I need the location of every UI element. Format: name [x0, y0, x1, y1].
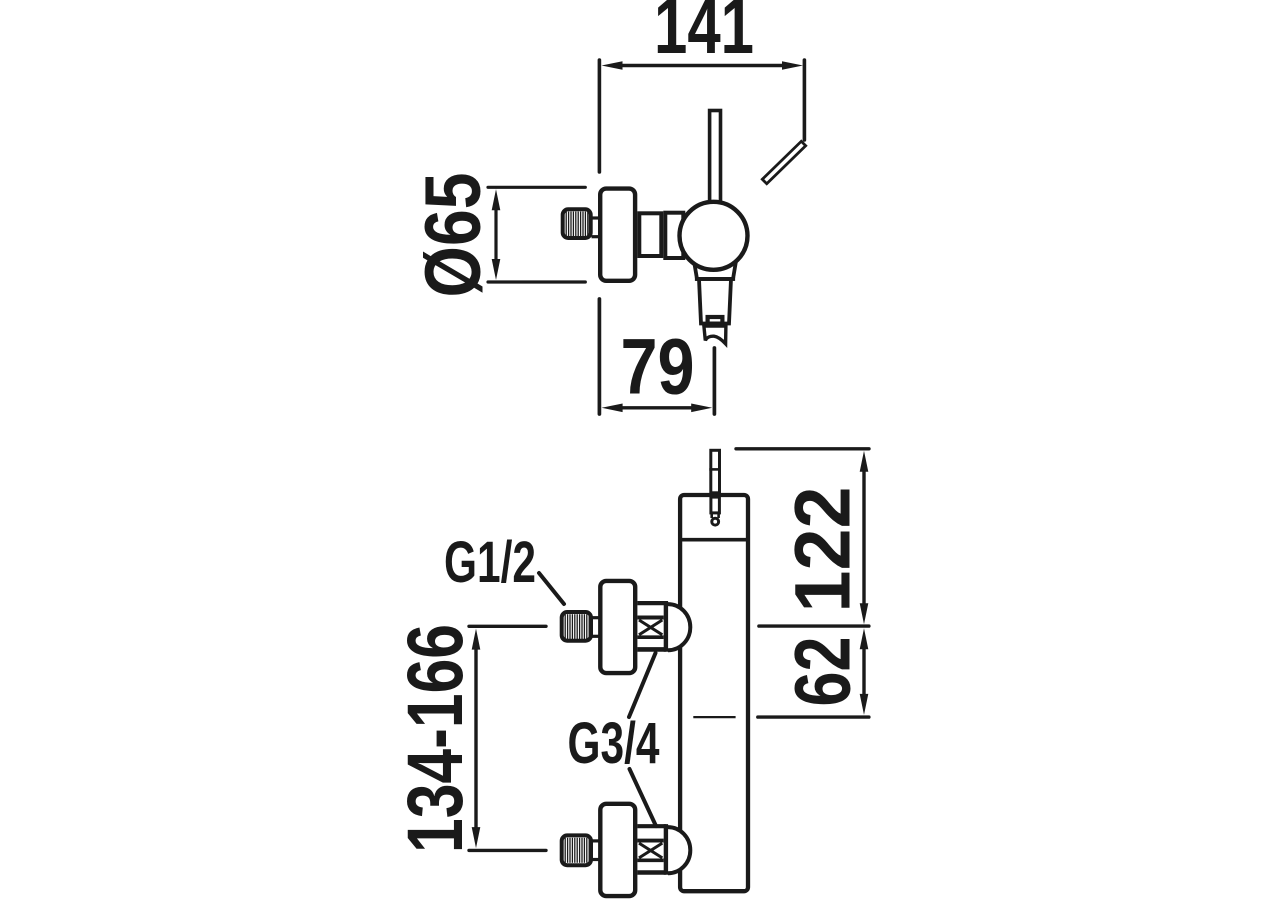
extension line right of 141 [803, 60, 807, 140]
arrowhead Ø65 down [492, 259, 501, 280]
leader line G1/2 [539, 573, 564, 604]
leader line G3/4 lower [630, 769, 657, 826]
arrowhead 79 left [602, 404, 623, 413]
front view: screw slot lower guides [710, 513, 713, 518]
side view: aerator window [708, 317, 723, 324]
side view: handle rod [710, 111, 721, 203]
dim text 62 (rotated) [778, 637, 867, 707]
arrowhead 122 down [860, 603, 869, 624]
front view: handle rod [711, 450, 720, 493]
front view: upper union top bar [637, 601, 666, 605]
dim text 141 [654, 0, 754, 70]
side view: collar bottom line [695, 277, 735, 281]
dimension line 79 [612, 406, 702, 409]
arrowhead 62 down [860, 694, 869, 715]
front view: lower union inner line 2 [637, 858, 663, 862]
dimension line 141 [612, 64, 792, 67]
side view: connector block [639, 213, 661, 256]
extension line left of 79 [598, 299, 602, 414]
front view: upper D-boss [668, 604, 690, 650]
front view: lower union bottom bar [637, 870, 666, 875]
side view: lever tip (diagonal) [762, 141, 805, 183]
svg-text:62: 62 [778, 637, 867, 707]
front view: lower nipple hatching [565, 838, 589, 863]
front view: lower flange [600, 804, 635, 896]
dimension line 62 [862, 640, 865, 703]
arrowhead 62 up [860, 628, 869, 649]
arrowhead 122 up [860, 451, 869, 472]
front view: lower D-boss [668, 827, 690, 873]
front view: lower nipple [562, 835, 591, 865]
extension line right of 79 [713, 348, 717, 414]
side view: neck between nipple and escutcheon [592, 216, 600, 219]
front view: lower union right bar [664, 824, 668, 875]
dim text 122 (rotated) [778, 487, 867, 613]
front view: cap divider line [678, 538, 750, 542]
front view: main body [680, 495, 748, 891]
front view: rod inner line [709, 468, 721, 471]
front view: upper flange [600, 581, 635, 673]
svg-text:Ø65: Ø65 [408, 173, 497, 298]
dim text Ø65 (rotated) [408, 173, 497, 298]
front view: lower union X cross [639, 843, 662, 858]
tick at rod top (122 upper) [736, 447, 869, 450]
front view: upper union inner line 1 [637, 616, 663, 620]
side view: wall escutcheon [600, 189, 635, 281]
svg-text:141: 141 [654, 0, 754, 70]
side view: outlet shroud [699, 279, 731, 324]
tick at outlet center (62 lower) [758, 715, 869, 718]
dimension line 134-166 [474, 645, 477, 832]
front view: lower union top bar [637, 824, 666, 828]
arrowhead 134-166 up [472, 629, 481, 650]
label G3/4 [568, 711, 660, 776]
side view: valve sphere [680, 202, 748, 270]
svg-text:134-166: 134-166 [390, 624, 479, 853]
tick at inlet center (122/62) [759, 624, 869, 627]
arrowhead 141 right [782, 61, 803, 70]
side view: threaded inlet nipple [563, 209, 591, 238]
front view: lower union inner line 1 [637, 839, 663, 843]
extension line left of 141 [598, 60, 602, 172]
side view: outlet fork (break symbol) [704, 326, 726, 344]
front view: upper union right bar [664, 601, 668, 652]
side view: nipple thread hatching [566, 212, 588, 237]
front view: upper union bottom bar [637, 647, 666, 652]
leader line G3/4 upper [629, 653, 656, 717]
side view: valve body block [665, 213, 683, 258]
dim text 79 [621, 322, 695, 411]
front view: screw circle [712, 518, 719, 525]
tick top of Ø65 [488, 186, 585, 189]
arrowhead Ø65 up [492, 189, 501, 210]
tick 134-166 lower [469, 849, 546, 852]
side view: outlet top collar [695, 264, 736, 279]
arrowhead 141 left [602, 61, 623, 70]
front view: upper union inner line 2 [637, 635, 663, 639]
dim text 134-166 (rotated) [390, 624, 479, 853]
front view: outlet centerline dash [693, 716, 735, 718]
tick bottom of Ø65 [488, 280, 585, 283]
front view: lower neck [592, 839, 600, 842]
front view: upper union X cross [639, 620, 662, 635]
front view: upper nipple hatching [565, 614, 589, 639]
svg-text:G1/2: G1/2 [444, 530, 536, 595]
tick 134-166 upper [469, 625, 546, 628]
arrowhead 79 right [691, 404, 712, 413]
front view: screw slot [711, 497, 720, 513]
dimension line Ø65 [494, 203, 497, 266]
arrowhead 134-166 down [472, 827, 481, 848]
svg-text:G3/4: G3/4 [568, 711, 660, 776]
label G1/2 [444, 530, 536, 595]
front view: upper neck [592, 616, 600, 619]
svg-text:79: 79 [621, 322, 695, 411]
dimension line 122 [862, 465, 865, 610]
svg-text:122: 122 [778, 487, 867, 613]
front view: upper nipple [562, 612, 591, 641]
